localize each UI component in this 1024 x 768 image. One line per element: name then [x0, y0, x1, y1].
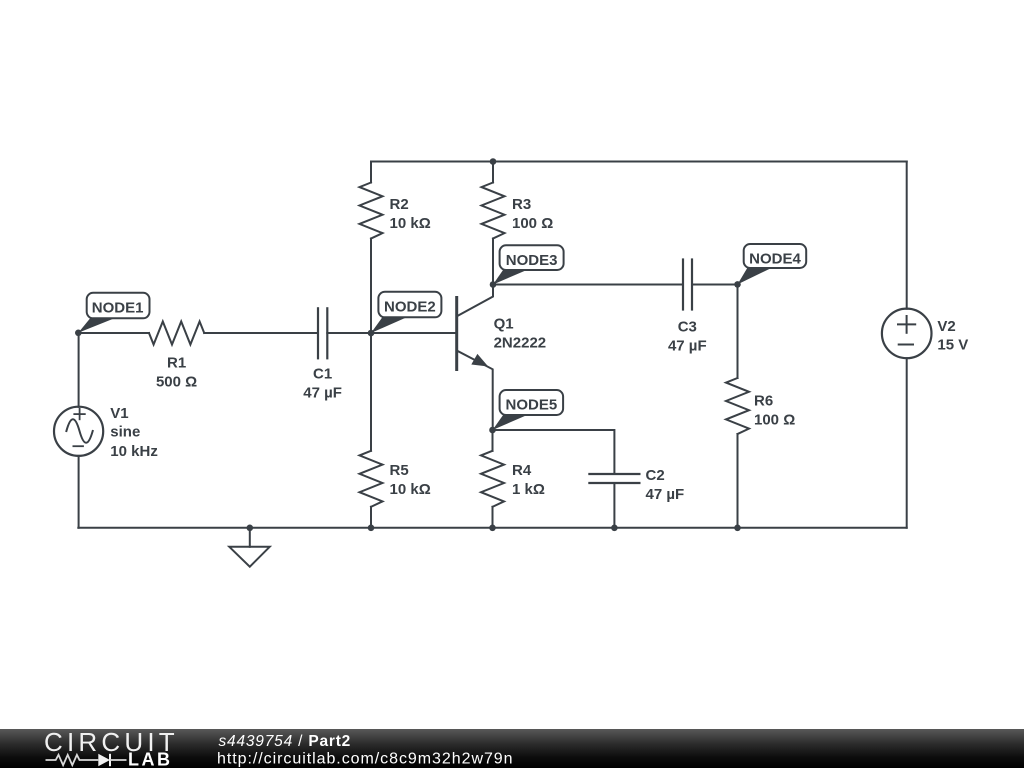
svg-text:sine: sine	[110, 424, 140, 441]
svg-text:NODE1: NODE1	[92, 300, 144, 317]
label C3 value	[668, 319, 707, 355]
svg-text:10 kHz: 10 kHz	[110, 443, 158, 460]
CircuitLab logo wordmark CIRCUIT	[0, 729, 1024, 768]
wire C1 to Q1 base	[327, 332, 455, 334]
V1 minus sign	[73, 445, 83, 447]
wire right rail top to V2	[906, 162, 908, 309]
wire R1 to C1	[204, 332, 318, 334]
svg-text:V2: V2	[937, 318, 955, 335]
svg-text:R4: R4	[512, 462, 532, 479]
node NODE3 dot	[490, 281, 497, 288]
wire V2 to bottom rail	[906, 358, 908, 528]
wire NODE5 to C2	[493, 430, 615, 473]
node label NODE3	[493, 245, 564, 284]
wire C2 to bottom rail	[613, 483, 615, 528]
CircuitLab logo squiggle resistor	[46, 755, 99, 765]
resistor R2	[360, 183, 383, 239]
V2 plus sign	[898, 316, 915, 333]
wire R3 to NODE3	[492, 239, 494, 285]
wire NODE2 to R5	[370, 333, 372, 451]
wire main base rail	[78, 332, 149, 334]
label R4 value	[512, 462, 545, 498]
junction dot top rail	[490, 158, 497, 165]
transistor Q1 base bar	[455, 296, 458, 371]
label R5 value	[390, 462, 431, 498]
node NODE4 dot	[734, 281, 741, 288]
svg-text:10 kΩ: 10 kΩ	[390, 481, 431, 498]
transistor Q1 collector	[458, 285, 493, 316]
svg-text:47 µF: 47 µF	[668, 338, 707, 355]
label R6 value	[754, 393, 795, 429]
ground triangle	[229, 547, 269, 567]
svg-text:s4439754 / Part2: s4439754 / Part2	[219, 733, 352, 750]
wire R5 to ground rail	[370, 507, 372, 528]
svg-text:http://circuitlab.com/c8c9m32h: http://circuitlab.com/c8c9m32h2w79n	[217, 751, 514, 768]
wire R2 to NODE2	[370, 239, 372, 334]
label V2 value	[937, 318, 968, 354]
wire NODE4 to R6	[737, 285, 739, 379]
voltage source V1 circle	[54, 407, 103, 456]
ground stem	[249, 528, 251, 547]
label Q1 value	[494, 316, 547, 352]
node label NODE4	[738, 244, 807, 284]
node label NODE2	[371, 292, 441, 333]
wire V1 to bottom rail	[78, 456, 80, 528]
svg-text:100 Ω: 100 Ω	[754, 412, 795, 429]
svg-text:NODE2: NODE2	[384, 299, 436, 316]
svg-text:500 Ω: 500 Ω	[156, 374, 197, 391]
transistor Q1 emitter arrow	[471, 354, 488, 367]
node label NODE1	[78, 293, 149, 333]
junction dot R5 bottom	[368, 525, 375, 532]
svg-text:15 V: 15 V	[937, 337, 968, 354]
svg-text:C1: C1	[313, 365, 332, 382]
svg-text:NODE5: NODE5	[506, 397, 558, 414]
svg-text:R5: R5	[390, 462, 409, 479]
junction dot ground	[247, 525, 254, 532]
svg-text:NODE4: NODE4	[749, 251, 801, 268]
resistor R4	[481, 451, 504, 507]
V2 minus sign	[899, 344, 913, 346]
svg-text:R1: R1	[167, 355, 186, 372]
svg-text:C3: C3	[678, 319, 697, 336]
svg-text:C2: C2	[646, 467, 665, 484]
V1 plus sign	[74, 409, 85, 419]
label R2 value	[390, 196, 431, 232]
capacitor C2	[589, 474, 639, 483]
wire R4 to bottom rail	[492, 507, 494, 528]
wire R3 branch	[492, 162, 494, 183]
node NODE1 dot	[75, 330, 82, 337]
svg-text:V1: V1	[110, 405, 128, 422]
svg-text:47 µF: 47 µF	[646, 486, 685, 503]
footer bar	[0, 729, 1024, 768]
junction dot C2 bottom	[611, 525, 618, 532]
wire NODE5 to R4	[492, 430, 494, 451]
resistor R1	[149, 322, 204, 345]
label C1 value	[303, 365, 342, 401]
svg-text:100 Ω: 100 Ω	[512, 215, 553, 232]
node label NODE5	[493, 390, 564, 430]
node NODE5 dot	[489, 427, 496, 434]
wire C3 to NODE4	[692, 284, 738, 286]
transistor Q1 emitter	[458, 351, 493, 430]
svg-text:R2: R2	[390, 196, 409, 213]
wire top rail	[371, 161, 907, 163]
V1 sine wave	[66, 419, 92, 443]
junction dot R4 bottom	[489, 525, 496, 532]
label C2 value	[646, 467, 685, 503]
wire R6 to bottom rail	[737, 434, 739, 528]
resistor R3	[482, 183, 505, 239]
capacitor C1	[318, 308, 327, 358]
svg-text:10 kΩ: 10 kΩ	[390, 215, 431, 232]
resistor R5	[360, 451, 383, 507]
CircuitLab logo squiggle diode	[98, 754, 110, 766]
capacitor C3	[683, 260, 692, 310]
svg-text:47 µF: 47 µF	[303, 385, 342, 402]
svg-text:R6: R6	[754, 393, 773, 410]
label V1 value	[110, 405, 158, 460]
label R3 value	[512, 196, 553, 232]
svg-text:1 kΩ: 1 kΩ	[512, 481, 545, 498]
voltage source V2 circle	[882, 309, 932, 359]
svg-text:R3: R3	[512, 196, 531, 213]
wire NODE3 to C3	[493, 284, 683, 286]
svg-text:Q1: Q1	[494, 316, 514, 333]
wire R2 branch	[370, 162, 372, 183]
wire left rail NODE1 to V1	[78, 333, 80, 407]
svg-text:NODE3: NODE3	[506, 252, 558, 269]
wire bottom rail	[78, 527, 906, 529]
label R1 value	[156, 355, 197, 391]
resistor R6	[726, 378, 749, 434]
svg-text:LAB: LAB	[128, 749, 173, 768]
svg-text:2N2222: 2N2222	[494, 335, 547, 352]
node NODE2 dot	[368, 330, 375, 337]
junction dot R6 bottom	[734, 525, 741, 532]
